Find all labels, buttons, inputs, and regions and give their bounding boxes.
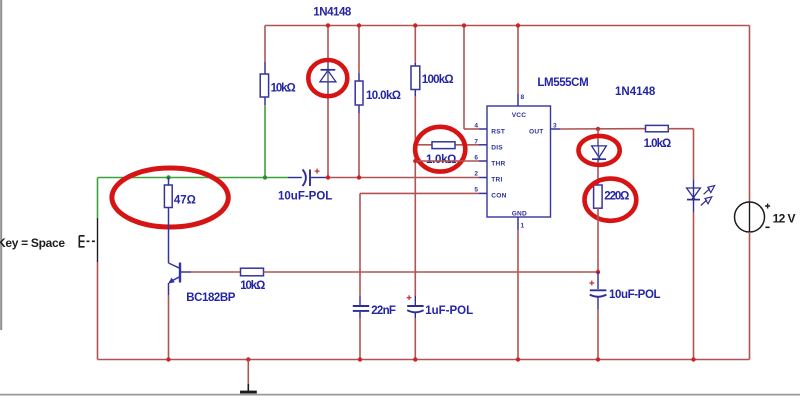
wire 220 to dot (597, 208, 599, 272)
value label 10uF-POL (right) (609, 289, 660, 301)
wire THR row y161 (415, 160, 487, 162)
value label 1.0k (right) (644, 138, 671, 150)
ground (240, 360, 257, 394)
svg-text:8: 8 (521, 94, 525, 101)
pin number 8 (521, 94, 525, 101)
svg-text:4: 4 (474, 123, 478, 130)
resistor 47ohm (circled) (164, 185, 172, 208)
capacitor C3 1uF-POL (407, 295, 424, 318)
annotation circle around D2 (579, 136, 620, 165)
wire 22nF to rail (359, 318, 361, 360)
switch actuator E and dashes (79, 236, 97, 247)
pin number 3 (553, 123, 557, 130)
svg-text:DIS: DIS (491, 144, 503, 151)
pin text VCC (512, 112, 527, 119)
svg-text:10kΩ: 10kΩ (271, 82, 296, 94)
junction bottom rail / 22nF column (358, 357, 362, 361)
svg-text:1: 1 (521, 223, 525, 230)
wire CON row y193.4 with corner down to 22nF column (360, 193, 487, 296)
label 12 V (773, 211, 796, 225)
svg-text:10.0kΩ: 10.0kΩ (366, 90, 401, 102)
transistor Q1 BC182BP (168, 263, 191, 284)
pin number 6 (474, 155, 478, 162)
switch J1 pole (black) (97, 218, 99, 262)
annotation circle around 220 (585, 179, 637, 221)
pin text GND (512, 210, 527, 217)
wire RST column x463 (464, 26, 487, 130)
junction dot OUT node (596, 127, 600, 131)
wire left column above R 10k (264, 26, 266, 75)
junction bottom rail / ground (246, 357, 250, 361)
pin text TRI (491, 176, 502, 183)
wire OUT row (551, 128, 646, 130)
sheet border bottom gray line (0, 394, 800, 396)
junction dot 10uF right node (596, 270, 600, 274)
green junction dot 10k column (263, 175, 267, 179)
value label 47ohm (174, 194, 196, 206)
wire right column from top rail to source (749, 26, 751, 203)
value label 1uF-POL (425, 305, 473, 317)
value label 220 (604, 191, 629, 203)
svg-text:1.0kΩ: 1.0kΩ (644, 138, 671, 150)
svg-text:100kΩ: 100kΩ (422, 74, 454, 86)
label 1N4148 (right) (615, 86, 656, 98)
pin number 2 (474, 171, 478, 178)
annotation circle around 1.0k (415, 127, 465, 172)
svg-text:BC182BP: BC182BP (186, 292, 235, 304)
wire diode column x328 (327, 26, 329, 178)
svg-text:VCC: VCC (512, 112, 527, 119)
svg-text:220Ω: 220Ω (604, 191, 629, 203)
svg-text:10uF-POL: 10uF-POL (278, 191, 332, 203)
svg-text:TRI: TRI (491, 176, 502, 183)
label BC182BP (186, 292, 235, 304)
wire bottom rail (98, 359, 750, 361)
value label 22nF (371, 305, 396, 317)
svg-text:1uF-POL: 1uF-POL (425, 305, 473, 317)
pin number 7 (474, 139, 478, 146)
junction bottom rail / 1uF column (413, 357, 417, 361)
junction dot DIS/100k node (413, 143, 417, 147)
junction dot THR/100k node (413, 159, 417, 163)
pin number 4 (474, 123, 478, 130)
pin text OUT (529, 128, 544, 135)
svg-text:22nF: 22nF (371, 305, 396, 317)
wire 10.0k column x359 (358, 26, 360, 178)
wire VCC pin8 column x518 (517, 26, 519, 107)
annotation circle around D1 (308, 60, 347, 96)
value label 10uF-POL (left) (278, 191, 332, 203)
svg-text:1N4148: 1N4148 (313, 7, 352, 19)
wire DIS row y145 (415, 144, 487, 146)
diode D2 1N4148 (cathode down) (592, 146, 607, 160)
junction bottom rail / GND pin 1 column (516, 357, 520, 361)
svg-text:47Ω: 47Ω (174, 194, 196, 206)
value label 1.0k (DIS) (426, 154, 456, 166)
wire top VCC rail (265, 25, 750, 27)
green junction dot 47ohm (166, 175, 170, 179)
resistor 1.0k (right, horizontal) (646, 125, 669, 131)
svg-text:CON: CON (491, 192, 506, 199)
resistor 10k (base) (241, 268, 264, 276)
op IC U1 LM555CM box (487, 106, 551, 217)
svg-text:10uF-POL: 10uF-POL (609, 289, 660, 301)
svg-text:Key = Space: Key = Space (0, 236, 65, 250)
capacitor C1 10uF-POL (series, horizontal) (288, 169, 326, 186)
pin text RST (491, 128, 505, 135)
label 1N4148 (top) (313, 7, 352, 19)
svg-text:THR: THR (491, 160, 505, 167)
wire 10uF right to rail (597, 309, 599, 360)
junction bottom rail / 10uF column (596, 357, 600, 361)
resistor 220 (594, 185, 603, 208)
label Key = Space (0, 236, 65, 250)
resistor 10k (top left) (260, 74, 268, 97)
svg-text:LM555CM: LM555CM (537, 77, 588, 89)
pin text THR (491, 160, 505, 167)
wire green node row y177.5 (98, 177, 289, 179)
svg-text:2: 2 (474, 171, 478, 178)
wire 100k column x415.3 (414, 26, 416, 297)
junction top rail / VCC pin 8 (516, 23, 520, 27)
wire base row y272 (191, 271, 241, 273)
svg-text:1N4148: 1N4148 (615, 86, 656, 98)
capacitor C4 10uF-POL (right) (589, 272, 606, 309)
value label 10.0k (366, 90, 401, 102)
resistor 1.0k (circled, DIS) (432, 142, 455, 149)
value label 100k (422, 74, 454, 86)
pin text DIS (491, 144, 503, 151)
wire LED to rail (693, 212, 695, 360)
diode D1 1N4148 (cathode up) (320, 69, 336, 82)
wire source to bottom rail (749, 232, 751, 360)
junction bottom rail / emitter column (166, 357, 170, 361)
wire diode2 column x598 (597, 129, 599, 185)
pin number 5 (474, 187, 478, 194)
wire TRI row y177.5 (330, 177, 487, 179)
junction top rail / RST column (462, 23, 466, 27)
label LM555CM (537, 77, 588, 89)
capacitor C2 22nF (353, 296, 369, 318)
wire switch column green part (97, 178, 99, 219)
svg-text:GND: GND (512, 210, 527, 217)
wire emitter down (168, 283, 170, 360)
value label 10k (base) (240, 280, 265, 292)
wire 1uF to rail (414, 318, 416, 360)
svg-text:5: 5 (474, 187, 478, 194)
junction dot TRI/10.0k (357, 175, 361, 179)
pin number 1 (521, 223, 525, 230)
junction top rail / 10.0k column (357, 23, 361, 27)
wire 47ohm to collector (168, 208, 170, 264)
junction top rail / diode column (326, 23, 330, 27)
wire 47ohm top lead (168, 178, 170, 186)
resistor 10.0k (355, 81, 363, 105)
LED arrows (701, 186, 715, 206)
voltage source V1 12V (735, 202, 771, 232)
svg-text:OUT: OUT (529, 128, 544, 135)
svg-text:10kΩ: 10kΩ (240, 280, 265, 292)
value label 10k (271, 82, 296, 94)
svg-text:12 V: 12 V (773, 211, 796, 225)
wire below 10k to green node (264, 97, 266, 178)
resistor 100k (411, 66, 420, 90)
wire base row to 10uF node (264, 271, 599, 273)
wire OUT to LED corner (668, 129, 693, 180)
LED1 (687, 180, 701, 212)
sheet border left gray line (0, 0, 2, 330)
pin text CON (491, 192, 506, 199)
junction dot diode column / TRI row (326, 175, 330, 179)
svg-text:RST: RST (491, 128, 505, 135)
wire switch column red part to bottom rail (97, 262, 99, 360)
junction bottom rail / LED column (691, 357, 695, 361)
junction top rail / 100k column (413, 23, 417, 27)
wire GND pin1 column (517, 217, 519, 360)
annotation circle around 47ohm (112, 168, 228, 227)
